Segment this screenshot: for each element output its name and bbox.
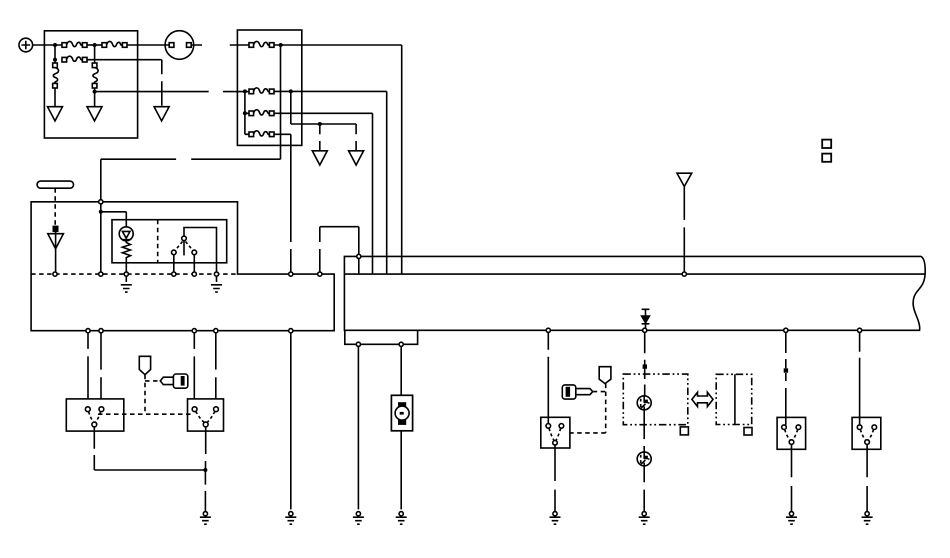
diode D1 <box>642 309 650 328</box>
motor M1 <box>391 395 412 431</box>
pill label <box>37 181 73 188</box>
terminals <box>85 407 90 412</box>
fuse F8 <box>249 110 274 116</box>
wire F5 row to dash fuse box <box>95 91 249 93</box>
wire to LED <box>101 212 127 227</box>
key K1 <box>160 374 187 388</box>
wire F4 to connector C1 <box>54 88 56 106</box>
ground G6 <box>396 512 407 525</box>
wire into unit top pin <box>100 204 102 274</box>
ground G5 <box>353 512 364 525</box>
switch pole <box>183 241 185 256</box>
LED indicator <box>119 227 133 241</box>
squares top right <box>822 140 831 148</box>
lock switch box A <box>777 417 806 449</box>
wire step pin to ground G5 <box>357 346 359 509</box>
door switch box 1 <box>66 399 124 431</box>
inner box <box>112 220 227 263</box>
junction dot <box>99 210 103 214</box>
stem C4 <box>319 124 321 150</box>
dash wire to ground G8 <box>643 466 645 512</box>
pentagon connector P2 <box>599 367 611 384</box>
small square tab 1 <box>680 427 688 435</box>
wire to lock switch B <box>859 332 861 425</box>
wire inside from pin <box>358 259 360 275</box>
wire F9 output <box>274 134 291 272</box>
ground G3 <box>285 512 296 525</box>
ground G10 <box>862 512 873 525</box>
connector C4 <box>312 151 327 165</box>
wire lock A down <box>791 444 793 511</box>
pins step box <box>356 342 360 346</box>
switch contact R <box>192 250 197 255</box>
dashed pentagon drop 2 <box>570 384 606 433</box>
terminals <box>546 424 551 429</box>
wire lock B down <box>866 444 868 511</box>
fuse F1 <box>62 41 87 47</box>
junction dot <box>289 89 293 93</box>
pin top edge <box>357 254 361 258</box>
connector C2 <box>87 107 102 121</box>
connector C3 <box>154 107 169 121</box>
wires below left unit to door switches <box>88 333 216 399</box>
switch contact dashes <box>175 242 193 251</box>
pin antenna <box>682 272 686 276</box>
dash-dot box 2 <box>716 374 752 424</box>
double arrow <box>692 392 713 406</box>
fuse F9 <box>249 131 274 137</box>
ground G4 <box>200 512 211 525</box>
wire diode pin down <box>644 332 646 396</box>
wire step pin to motor <box>400 346 402 395</box>
wire F5 out <box>94 88 96 106</box>
pins bottom edge right unit <box>546 328 550 332</box>
door switch box 2 <box>188 399 224 431</box>
terminals <box>192 407 197 412</box>
dashed key link <box>145 380 160 382</box>
junction dot <box>318 122 322 126</box>
switch contact L <box>172 250 177 255</box>
wire F7 output <box>274 91 387 274</box>
fuse F5 vertical <box>92 63 98 88</box>
connector dashed line <box>31 273 237 275</box>
connector C1 <box>48 107 63 121</box>
junction dot <box>279 43 283 47</box>
junction dot <box>93 90 97 94</box>
wire battery rail to F5 <box>94 45 96 63</box>
dash-dot box actuator <box>623 374 688 425</box>
wire to key switch <box>547 332 549 423</box>
sensor square <box>53 226 57 231</box>
ground G7 <box>550 512 561 525</box>
wire F6 output to right <box>274 45 402 274</box>
connector link U wires <box>320 227 359 272</box>
node rail row2 feed <box>54 45 56 63</box>
fuse F2 <box>102 41 127 47</box>
battery positive terminal <box>19 38 33 52</box>
switch common terminal <box>182 236 187 241</box>
LEFT CONTROL UNIT outline <box>31 202 334 331</box>
key K2 <box>562 385 592 399</box>
dashed mechanical link <box>98 413 191 415</box>
wire F6 branch down-left <box>101 45 281 200</box>
dashed pentagon drop <box>144 375 146 415</box>
wire F3 output <box>87 60 162 106</box>
stem C5 <box>355 124 357 150</box>
wire to lock switch A <box>785 332 787 368</box>
wire F1 to F2 <box>87 44 102 46</box>
junction dot <box>203 468 207 472</box>
key cylinder actuator 2 <box>637 452 651 466</box>
wire branch to connectors C4 C5 <box>291 91 356 124</box>
junction dot <box>93 43 97 47</box>
dashed wire <box>785 373 787 425</box>
ground G9 <box>786 512 797 525</box>
fuse F7 <box>249 88 274 94</box>
blades dashed <box>196 411 215 422</box>
wire left unit pin to ground G3 <box>290 333 292 510</box>
switch common frame <box>184 228 217 273</box>
small square tab 2 <box>744 428 752 436</box>
fuse F4 vertical <box>53 63 59 88</box>
wire F2 to ignition switch <box>127 44 165 46</box>
pin top edge <box>99 200 103 204</box>
lock switch box B <box>852 417 881 449</box>
ground G2 internal <box>216 276 218 282</box>
dash fuse box <box>237 30 301 145</box>
internal bus line <box>344 273 924 275</box>
key cylinder actuator 1 <box>637 396 651 410</box>
ground G1 internal <box>125 276 127 282</box>
ground G8 <box>639 512 650 525</box>
wire ignition to dash fuse box <box>194 44 249 46</box>
wire sw2 common down <box>205 427 207 470</box>
contact wires to pins <box>174 255 195 272</box>
dashed divider <box>157 220 159 263</box>
rail in dash box <box>245 91 249 134</box>
wire sw1 common down <box>94 427 205 470</box>
RIGHT CONTROL UNIT outline <box>344 256 925 330</box>
dashed drop from pill <box>54 188 56 226</box>
blades dashed <box>549 428 561 440</box>
pins on dashed connector line <box>53 272 57 276</box>
connector C5 <box>349 151 364 165</box>
antenna connector arrow <box>677 173 692 186</box>
wire F8 output <box>274 113 373 274</box>
inner bar <box>734 374 736 424</box>
splice square A <box>784 368 788 372</box>
antenna wire <box>683 187 685 272</box>
dash wire between actuators <box>643 410 645 452</box>
blades dashed <box>89 412 101 423</box>
wire to ground G4 <box>204 470 206 512</box>
splice square <box>643 364 647 368</box>
fuse F6 <box>249 41 274 47</box>
step box below right unit <box>345 330 418 344</box>
pentagon connector P1 <box>139 356 150 374</box>
ignition switch <box>165 31 194 60</box>
fuse F3 row2 <box>62 56 87 62</box>
pins bottom edge left unit <box>86 329 90 333</box>
junction dot <box>53 43 57 47</box>
wire motor to ground G6 <box>400 431 402 510</box>
wire key switch down <box>554 445 556 512</box>
sensor arrow triangle <box>48 231 64 271</box>
dashed key link 2 <box>593 391 606 393</box>
junction dot <box>243 111 247 115</box>
junction dot <box>243 89 247 93</box>
under-hood fuse box <box>44 31 137 138</box>
wire battery to under-hood fuse box <box>33 44 62 46</box>
junction dot <box>53 58 57 62</box>
key switch box <box>541 417 570 448</box>
resistor zigzag <box>122 241 130 272</box>
